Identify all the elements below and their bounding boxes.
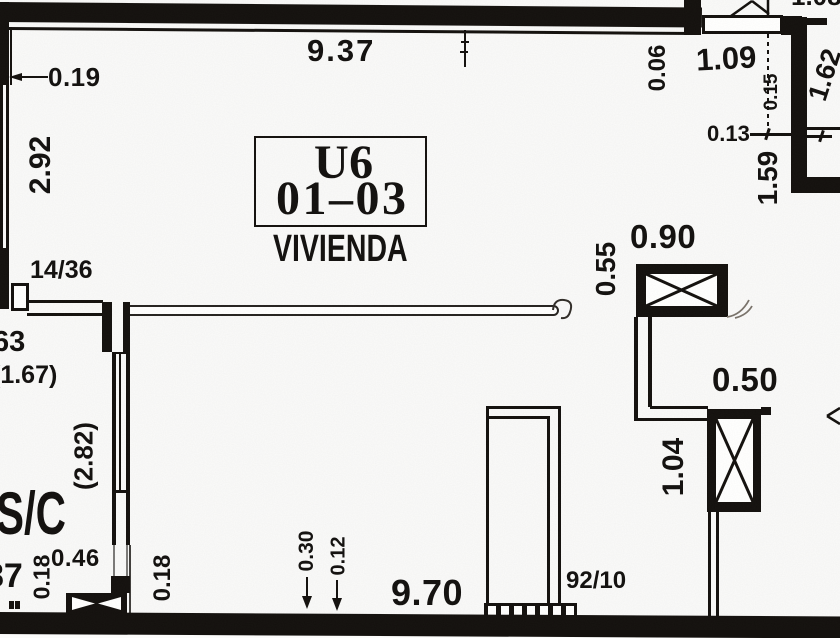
window section of interior wall bbox=[112, 352, 130, 354]
flourish at counter end bbox=[551, 296, 577, 322]
tall door leaf rectangle bbox=[486, 406, 489, 606]
thin bar to right edge bbox=[801, 18, 827, 25]
right exterior wall bbox=[791, 17, 807, 193]
left exterior wall lower bbox=[0, 248, 9, 309]
door opening light lines bbox=[113, 545, 115, 576]
dimension 1.04 (rotated) bbox=[657, 438, 691, 496]
horizontal double wall to shaft 2 bbox=[650, 406, 708, 409]
left wall inner face line bbox=[10, 27, 12, 85]
right wall return to edge bbox=[807, 177, 840, 193]
lower solid section bbox=[112, 490, 130, 493]
dimension 0.55 (rotated) bbox=[590, 242, 622, 297]
nub right of shaft 2 bbox=[761, 407, 771, 415]
dimension 1.09 bbox=[695, 39, 757, 78]
elevator shaft 2 bbox=[707, 409, 761, 512]
wall edge line to bottom bbox=[129, 545, 131, 613]
top-right vertical wall stub bbox=[684, 0, 701, 35]
dimension tick below top wall bbox=[464, 30, 466, 67]
clipped text 1.08 at top edge bbox=[791, 0, 840, 12]
small dimension arrows 0.30 / 0.12 bbox=[295, 531, 319, 572]
dimension 9.37 bbox=[307, 33, 375, 69]
door threshold top-right (white box) bbox=[702, 15, 783, 34]
interior vertical wall: upper solid section bbox=[102, 302, 112, 352]
bottom-left door hatch with bowtie bbox=[66, 593, 127, 614]
window in left wall bbox=[0, 85, 3, 248]
dimension 0.13 with line bbox=[707, 121, 750, 147]
room labels left bbox=[0, 326, 25, 359]
dimension 0.06 (rotated) bbox=[644, 45, 672, 92]
label VIVIENDA bbox=[273, 228, 408, 271]
left exterior wall upper bbox=[0, 2, 9, 85]
black block right of threshold bbox=[781, 16, 802, 35]
U6 label box bbox=[254, 136, 427, 227]
bottom hatch strip under door bbox=[484, 603, 577, 617]
top wall inner face line bbox=[9, 27, 697, 35]
elevator shaft 1 bbox=[636, 264, 728, 317]
dimension 1.62 (rotated, skewed) bbox=[802, 45, 840, 105]
bottom labels bbox=[391, 572, 463, 614]
dimension 0.90 bbox=[630, 218, 696, 256]
arrow at right edge bbox=[824, 405, 840, 427]
dotted extension line 0.15 bbox=[767, 34, 769, 133]
door jamb box bbox=[11, 283, 29, 311]
dimension 0.15 (rotated) bbox=[761, 74, 783, 111]
label 14/36 bbox=[30, 256, 93, 285]
scratch mark right of shaft bbox=[725, 294, 755, 320]
interior wall left (horizontal, double line) bbox=[27, 300, 103, 303]
bottom-left labels bbox=[0, 557, 23, 596]
thin line right of wall bbox=[807, 127, 840, 130]
dimension 0.50 bbox=[712, 361, 778, 399]
dimension 1.59 (rotated) bbox=[752, 151, 784, 206]
door sill bar bbox=[111, 576, 130, 593]
wall below shaft 1 (double line) bbox=[634, 317, 638, 421]
stair X cut at top edge bbox=[725, 0, 775, 17]
wall below shaft 2 (double line) bbox=[708, 512, 711, 617]
dimension 2.92 (rotated) bbox=[24, 136, 58, 194]
dimension 0.19 line and arrow bbox=[12, 76, 48, 78]
top exterior wall bbox=[0, 2, 702, 28]
bottom exterior wall bbox=[0, 612, 840, 638]
long counter line across living room bbox=[127, 305, 559, 316]
small squares left bbox=[9, 601, 14, 609]
